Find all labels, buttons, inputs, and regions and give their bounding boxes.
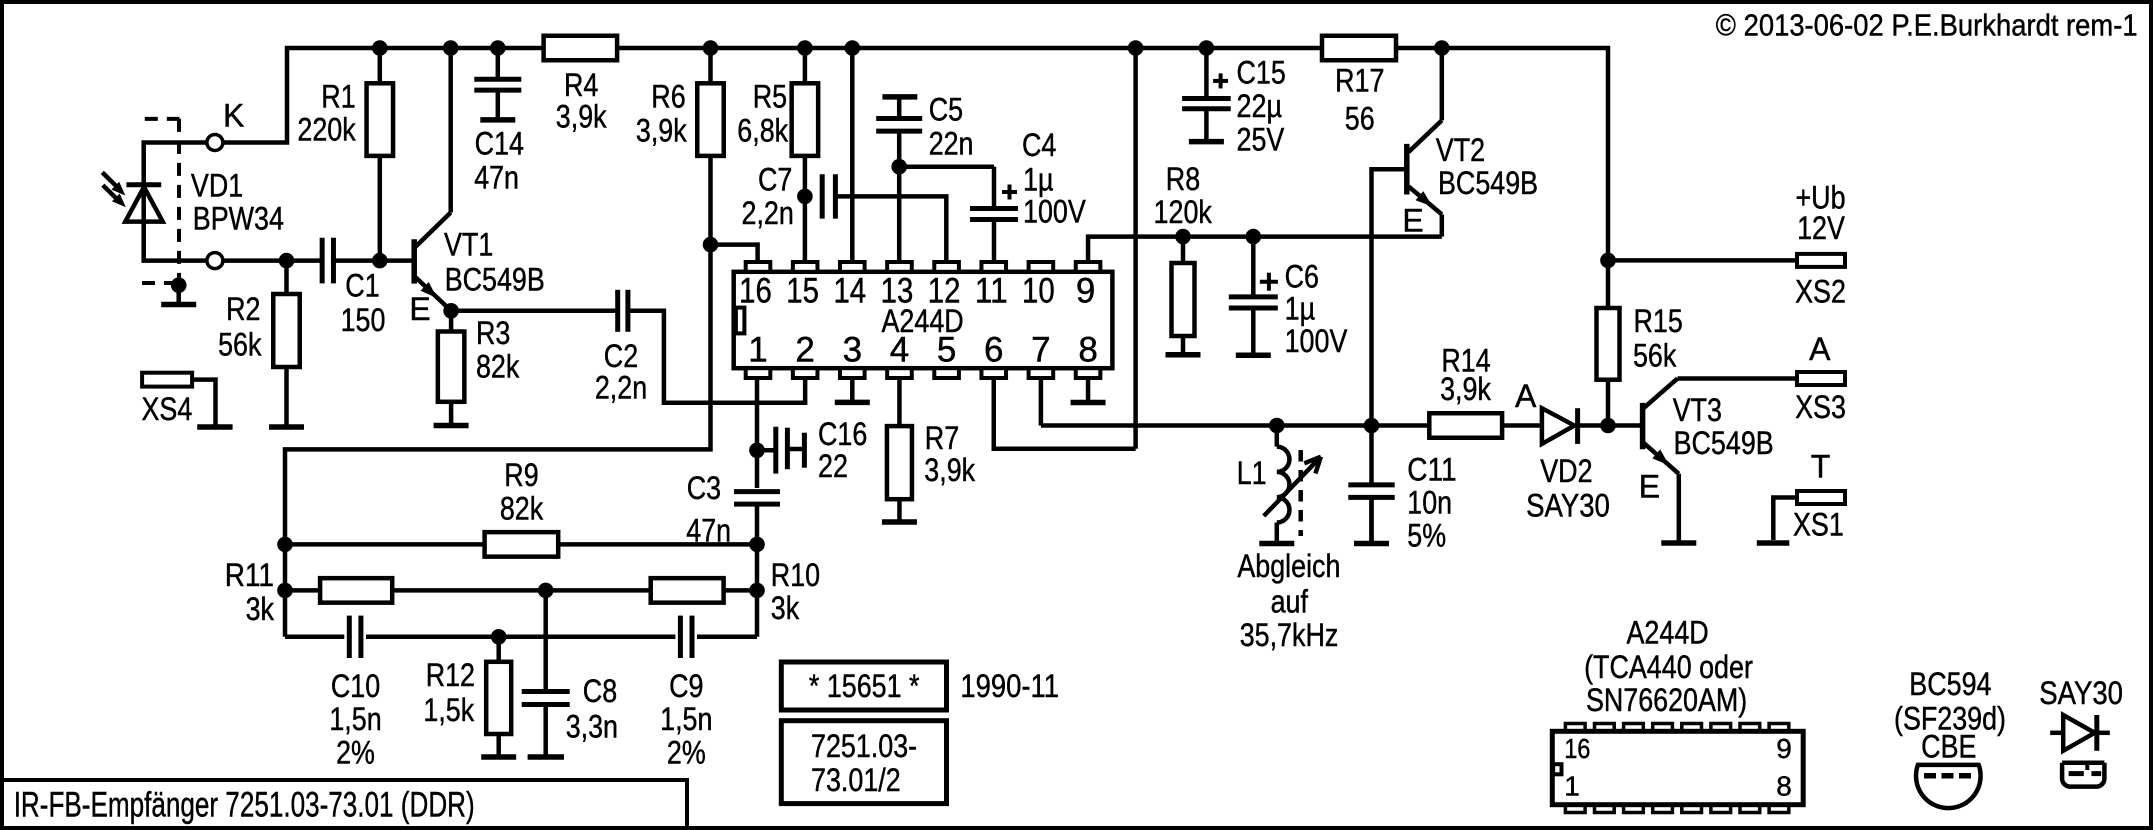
capacitor C3 47n <box>734 489 780 494</box>
svg-text:2: 2 <box>795 331 814 370</box>
node emitter-R8 <box>1175 229 1191 245</box>
SAY30 diode symbol <box>2050 731 2063 736</box>
node pin13-C5 <box>891 159 907 175</box>
node rail-R6 <box>703 40 719 56</box>
resistor R7 3,9k on pin 4 <box>897 378 902 426</box>
svg-text:C9: C9 <box>669 668 703 704</box>
wire vertical 1135 rail-to-pin6 <box>1133 48 1138 449</box>
node tank-L1 <box>1269 418 1285 434</box>
IC pin 5 stub <box>934 368 959 378</box>
title block box <box>2 780 687 826</box>
DIP package top pin 12 stub <box>1682 724 1702 732</box>
svg-text:2,2n: 2,2n <box>742 195 794 231</box>
svg-text:1µ: 1µ <box>1023 162 1054 198</box>
svg-text:47n: 47n <box>474 159 519 195</box>
svg-text:C11: C11 <box>1407 451 1456 487</box>
ground under C15 <box>1204 109 1209 142</box>
svg-text:© 2013-06-02 P.E.Burkhardt rem: © 2013-06-02 P.E.Burkhardt rem-1 <box>1716 8 2138 43</box>
svg-text:73.01/2: 73.01/2 <box>811 762 901 798</box>
stamp box 7251.03-73.01/2 <box>781 721 946 804</box>
wire VT1 emitter to C2 <box>451 309 615 314</box>
svg-text:15: 15 <box>786 271 819 310</box>
svg-text:R11: R11 <box>225 557 274 593</box>
wire +V top rail from K corner to +Ub corner <box>223 48 1608 260</box>
diode VD2 SAY30 <box>1542 408 1575 444</box>
connector XS1 <box>1797 491 1845 504</box>
svg-text:R15: R15 <box>1634 303 1683 339</box>
wire IC pin 1 down to filter node <box>755 378 760 488</box>
transistor VT3 BC549B <box>1640 403 1646 449</box>
IC pin 8 stub <box>1076 368 1101 378</box>
IC pin 2 stub <box>793 368 818 378</box>
svg-text:1µ: 1µ <box>1285 291 1316 327</box>
svg-text:10: 10 <box>1022 271 1055 310</box>
wire filter bottom row <box>285 635 344 640</box>
svg-text:22: 22 <box>818 448 848 484</box>
svg-text:VD2: VD2 <box>1540 453 1592 489</box>
svg-text:56: 56 <box>1345 101 1375 137</box>
node emitter-C6 <box>1246 229 1262 245</box>
capacitor C2 2,2n <box>615 290 620 332</box>
svg-text:CBE: CBE <box>1921 729 1976 765</box>
wire IC pin 6 to +V line <box>994 378 1136 449</box>
ground under VT3 emitter <box>1677 540 1682 543</box>
DIP package bottom pin 8 stub <box>1769 805 1789 813</box>
svg-text:14: 14 <box>833 271 866 310</box>
dashed case outline of VD1 assembly <box>145 117 180 121</box>
DIP package bottom pin 4 stub <box>1653 805 1673 813</box>
resistor R10 3k <box>651 578 724 603</box>
svg-text:82k: 82k <box>500 491 544 527</box>
capacitor C11 10n 5% <box>1369 426 1374 485</box>
svg-text:1,5n: 1,5n <box>660 701 712 737</box>
wire IC pin 14 to rail <box>850 48 855 262</box>
svg-text:SAY30: SAY30 <box>1526 488 1610 524</box>
svg-text:K: K <box>223 98 244 134</box>
resistor R6 3,9k and wire down to filter <box>285 48 711 637</box>
node pin1-C16-C3 <box>749 443 765 459</box>
svg-text:R9: R9 <box>504 457 538 493</box>
svg-text:C5: C5 <box>929 92 963 128</box>
DIP package bottom pin 7 stub <box>1740 805 1760 813</box>
node bottom-R12 <box>491 629 507 645</box>
transistor VT2 BC549B <box>1404 144 1410 195</box>
wire tank net pin7 to VT3 base <box>1041 423 1429 428</box>
node +Ub R15 <box>1600 253 1616 269</box>
svg-text:L1: L1 <box>1237 455 1267 491</box>
L1 adjustment arrow <box>1264 457 1321 516</box>
resistor R15 56k <box>1606 260 1611 308</box>
svg-text:1,5k: 1,5k <box>423 692 475 728</box>
ground under R3 <box>449 402 454 426</box>
wire tap to IC pin 16 <box>711 245 758 262</box>
svg-text:2,2n: 2,2n <box>595 370 647 406</box>
svg-text:XS4: XS4 <box>142 391 193 427</box>
IC pin 7 stub <box>1029 368 1054 378</box>
svg-text:3k: 3k <box>771 590 800 626</box>
svg-text:BC549B: BC549B <box>445 261 545 297</box>
svg-text:XS2: XS2 <box>1795 274 1846 310</box>
wire IC pin 9 to VT2 emitter net <box>1088 237 1442 262</box>
svg-text:9: 9 <box>1776 733 1792 764</box>
svg-text:C14: C14 <box>475 126 524 162</box>
ground under C8 <box>528 754 564 760</box>
svg-text:1: 1 <box>1564 771 1580 802</box>
node dashed-case ground junction <box>171 277 187 293</box>
svg-text:22n: 22n <box>929 125 974 161</box>
svg-text:A: A <box>1809 331 1831 367</box>
svg-text:3,9k: 3,9k <box>636 113 688 149</box>
svg-text:R1: R1 <box>321 79 355 115</box>
wire IC pin 8 to ground <box>1086 378 1091 403</box>
svg-text:6,8k: 6,8k <box>737 113 789 149</box>
svg-text:11: 11 <box>975 271 1008 310</box>
wire input net: lower terminal to VT1 base <box>223 258 321 263</box>
resistor R3 82k <box>449 311 454 332</box>
node filter-right-R9 <box>749 537 765 553</box>
svg-text:1: 1 <box>748 331 767 370</box>
resistor R17 56 <box>1322 36 1396 61</box>
DIP package pin-1 notch <box>1553 764 1561 774</box>
node rail-line1135 <box>1128 40 1144 56</box>
wire filter R10 R11 row <box>285 588 757 593</box>
svg-text:C3: C3 <box>687 470 721 506</box>
photodiode VD1 BPW34 <box>126 182 161 187</box>
DIP package bottom pin 1 stub <box>1565 805 1585 813</box>
svg-text:220k: 220k <box>297 112 356 148</box>
DIP package top pin 14 stub <box>1624 724 1644 732</box>
capacitor C16 22 (series stub) <box>757 448 774 453</box>
svg-text:150: 150 <box>341 302 386 338</box>
svg-text:VT3: VT3 <box>1673 392 1722 428</box>
DIP package bottom pin 5 stub <box>1682 805 1702 813</box>
L1 core dashed line <box>1298 450 1303 536</box>
capacitor C10 1,5n 2% <box>347 616 352 658</box>
inductor L1 adjustable <box>1275 426 1280 447</box>
svg-text:16: 16 <box>739 271 772 310</box>
svg-text:25V: 25V <box>1237 122 1285 158</box>
svg-text:C8: C8 <box>583 673 617 709</box>
svg-text:E: E <box>409 291 430 327</box>
terminal K upper circle <box>207 135 223 151</box>
node rail-VT1-collector <box>443 40 459 56</box>
SAY30 package dashed line and tick <box>2069 771 2084 776</box>
BC594 can dashed flat line <box>1924 773 1971 779</box>
svg-text:3: 3 <box>843 331 862 370</box>
IC pin 14 stub <box>840 262 865 272</box>
resistor R5 6,8k <box>803 48 808 262</box>
capacitor C4 1µ 100V <box>992 167 997 206</box>
light arrow 1 into VD1 <box>102 172 118 188</box>
svg-text:1990-11: 1990-11 <box>960 668 1059 704</box>
DIP package top pin 11 stub <box>1711 724 1731 732</box>
node rail-C14 <box>490 40 506 56</box>
node rail-pin14 <box>845 40 861 56</box>
svg-text:56k: 56k <box>218 327 262 363</box>
svg-text:R3: R3 <box>476 315 510 351</box>
IC pin-1 notch mark <box>736 308 745 334</box>
svg-text:R17: R17 <box>1335 63 1384 99</box>
wire filter R9 row <box>285 542 757 547</box>
svg-text:(TCA440 oder: (TCA440 oder <box>1584 649 1753 685</box>
svg-text:3,9k: 3,9k <box>1440 371 1492 407</box>
connector XS3 <box>1797 372 1845 385</box>
node VT1 emitter <box>443 303 459 319</box>
ground under C6 <box>1251 308 1256 355</box>
svg-text:C10: C10 <box>331 668 380 704</box>
resistor R14 3,9k <box>1429 413 1502 438</box>
svg-text:* 15651 *: * 15651 * <box>809 668 920 704</box>
node input-R2 <box>279 253 295 269</box>
ground under C11 <box>1369 497 1374 543</box>
svg-text:VD1: VD1 <box>191 168 243 204</box>
node rail-R5 <box>797 40 813 56</box>
svg-text:A244D: A244D <box>882 303 964 339</box>
svg-text:120k: 120k <box>1154 194 1213 230</box>
svg-text:R10: R10 <box>771 557 820 593</box>
svg-text:A: A <box>1515 378 1537 414</box>
svg-text:VT1: VT1 <box>444 226 493 262</box>
node rail-R1 <box>372 40 388 56</box>
capacitor C8 3,3n <box>543 590 548 691</box>
svg-text:E: E <box>1639 469 1660 505</box>
svg-text:R7: R7 <box>925 420 959 456</box>
IC pin 9 stub <box>1076 262 1101 272</box>
capacitor C15 22µ 25V <box>1204 48 1209 99</box>
DIP package bottom pin 3 stub <box>1624 805 1644 813</box>
node rail-VT2-collector <box>1434 40 1450 56</box>
SAY30 package outline <box>2062 763 2104 787</box>
wire IC pin 3 to ground <box>850 378 855 402</box>
resistor R9 82k <box>485 532 559 557</box>
capacitor C1 150 <box>320 238 325 284</box>
wire C2 to IC pin 2 <box>630 311 805 403</box>
svg-text:Abgleich: Abgleich <box>1237 548 1340 584</box>
svg-text:10n: 10n <box>1407 485 1452 521</box>
svg-text:R6: R6 <box>651 78 685 114</box>
ground under XS4 wire <box>197 424 232 430</box>
svg-text:C16: C16 <box>818 416 867 452</box>
svg-text:22µ: 22µ <box>1237 88 1283 124</box>
resistor R1 220k <box>378 48 383 83</box>
svg-text:35,7kHz: 35,7kHz <box>1240 617 1339 653</box>
svg-text:2%: 2% <box>336 735 375 771</box>
svg-text:3,9k: 3,9k <box>924 452 976 488</box>
capacitor C14 47n <box>496 48 501 79</box>
resistor R8 120k <box>1181 237 1186 263</box>
svg-text:R5: R5 <box>753 78 787 114</box>
wire XS1 to ground <box>1773 498 1797 541</box>
DIP package top pin 9 stub <box>1769 724 1789 732</box>
capacitor C9 1,5n 2% <box>678 616 683 658</box>
node VD2-R15-VT3 <box>1600 418 1616 434</box>
IC pin 10 stub <box>1029 262 1054 272</box>
light arrow 2 into VD1 <box>103 185 119 201</box>
svg-text:R8: R8 <box>1166 161 1200 197</box>
wire VT2 base down to tank <box>1372 169 1407 425</box>
DIP package bottom pin 6 stub <box>1711 805 1731 813</box>
svg-text:T: T <box>1811 449 1831 485</box>
ground under R12 <box>496 734 501 757</box>
svg-text:9: 9 <box>1076 271 1095 310</box>
wire XS4 to ground <box>192 380 215 425</box>
svg-text:100V: 100V <box>1023 194 1086 230</box>
svg-text:82k: 82k <box>476 349 520 385</box>
IC pin 3 stub <box>840 368 865 378</box>
svg-text:R12: R12 <box>426 657 475 693</box>
svg-text:5%: 5% <box>1407 518 1446 554</box>
DIP package top pin 10 stub <box>1740 724 1760 732</box>
node R5-C7 <box>797 189 813 205</box>
connector XS2 <box>1797 254 1845 267</box>
svg-text:C7: C7 <box>758 162 792 198</box>
IC pin 6 stub <box>981 368 1006 378</box>
IC pin 13 stub <box>887 262 912 272</box>
connector XS4 <box>142 373 192 387</box>
resistor R11 3k <box>320 578 392 603</box>
svg-text:3,3n: 3,3n <box>566 709 618 745</box>
svg-text:BC549B: BC549B <box>1674 425 1774 461</box>
BC594 TO-18 can outline <box>1916 765 1981 808</box>
ground under R7 <box>897 499 902 522</box>
svg-text:8: 8 <box>1078 331 1097 370</box>
svg-text:16: 16 <box>1564 733 1590 764</box>
svg-text:C6: C6 <box>1285 259 1319 295</box>
wire pin13 down <box>897 167 902 262</box>
svg-text:E: E <box>1402 203 1423 239</box>
ground under R8 <box>1181 336 1186 355</box>
IC pin 16 stub <box>746 262 771 272</box>
ground under R2 <box>284 367 289 427</box>
wire K through VD1 to lower terminal <box>144 143 207 261</box>
svg-text:IR-FB-Empfänger 7251.03-73.01: IR-FB-Empfänger 7251.03-73.01 (DDR) <box>14 786 475 825</box>
svg-text:C1: C1 <box>345 268 379 304</box>
wire pin13 node to C4 <box>899 164 994 169</box>
IC pin 1 stub <box>746 368 771 378</box>
svg-text:BC549B: BC549B <box>1438 165 1538 201</box>
ground under dashed case <box>176 285 181 304</box>
stamp box 15651 <box>781 662 946 710</box>
node filter-left-R11 <box>277 583 293 599</box>
wire VT3 collector to XS3 <box>1678 376 1798 381</box>
wire +Ub node to XS2 <box>1608 258 1797 263</box>
IC pin 12 stub <box>934 262 959 272</box>
svg-text:56k: 56k <box>1633 338 1677 374</box>
DIP-16 package body <box>1552 731 1803 804</box>
svg-text:BC594: BC594 <box>1909 666 1991 702</box>
resistor R4 3,9k <box>544 36 618 61</box>
svg-text:auf: auf <box>1271 584 1308 620</box>
node R6-pin16 tap <box>703 237 719 253</box>
node rail-C15 <box>1199 40 1215 56</box>
svg-text:100V: 100V <box>1285 323 1348 359</box>
ground under C14 <box>496 90 501 120</box>
wire C7 to IC pin 12 <box>835 196 946 262</box>
svg-text:A244D: A244D <box>1627 615 1709 651</box>
wire C3 to filter right rail <box>755 504 760 637</box>
svg-text:XS1: XS1 <box>1793 507 1844 543</box>
capacitor C6 1µ 100V <box>1251 237 1256 297</box>
svg-text:VT2: VT2 <box>1436 132 1485 168</box>
svg-text:SAY30: SAY30 <box>2039 675 2123 711</box>
svg-text:3,9k: 3,9k <box>556 99 608 135</box>
svg-text:2%: 2% <box>667 735 706 771</box>
DIP package top pin 13 stub <box>1653 724 1673 732</box>
DIP package top pin 16 stub <box>1565 724 1585 732</box>
svg-text:8: 8 <box>1776 771 1792 802</box>
resistor R12 1,5k <box>496 637 501 662</box>
DIP package bottom pin 2 stub <box>1595 805 1615 813</box>
node input-R1 <box>372 253 388 269</box>
ground under XS1 wire <box>1757 540 1790 546</box>
svg-text:7: 7 <box>1031 331 1050 370</box>
IC pin 15 stub <box>793 262 818 272</box>
svg-text:BPW34: BPW34 <box>193 201 284 237</box>
svg-text:7251.03-: 7251.03- <box>811 728 917 764</box>
svg-text:R2: R2 <box>226 291 260 327</box>
svg-text:SN76620AM): SN76620AM) <box>1586 682 1747 718</box>
svg-text:6: 6 <box>984 331 1003 370</box>
svg-text:12V: 12V <box>1797 210 1845 246</box>
capacitor C5 22n with open top terminal <box>882 94 917 100</box>
svg-text:XS3: XS3 <box>1795 389 1846 425</box>
node filter-left-R9 <box>277 537 293 553</box>
transistor VT1 BC549B <box>411 239 417 283</box>
ground under L1 <box>1275 540 1280 544</box>
IC pin 4 stub <box>887 368 912 378</box>
svg-text:1,5n: 1,5n <box>329 701 381 737</box>
svg-text:3k: 3k <box>246 591 275 627</box>
IC pin 11 stub <box>981 262 1006 272</box>
terminal lower circle <box>207 253 223 269</box>
node filter-right-R10 <box>749 583 765 599</box>
node filter-mid-C8 <box>538 583 554 599</box>
resistor R2 56k <box>284 261 289 294</box>
DIP package top pin 15 stub <box>1595 724 1615 732</box>
capacitor C7 2,2n <box>820 174 825 218</box>
node tank-C11-VT2base <box>1364 418 1380 434</box>
svg-text:C4: C4 <box>1022 127 1056 163</box>
IC U1 A244D body <box>734 272 1113 368</box>
svg-text:C15: C15 <box>1237 55 1286 91</box>
